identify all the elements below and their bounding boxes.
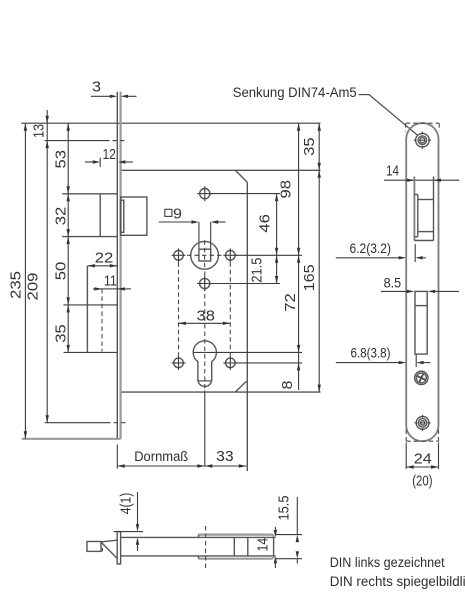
- nut square right line up: [210, 222, 212, 261]
- cylinder vertical centre line dashed: [204, 272, 206, 390]
- faceplate front view outline with rounded ends: [406, 123, 438, 441]
- dimension line 46 and 21.5: [276, 194, 278, 284]
- side view latch hidden dash: [101, 548, 103, 552]
- nut centre line vertical: [204, 240, 206, 270]
- dimension line 35 and 165: [318, 123, 320, 392]
- side view cover plate bottom: [199, 558, 272, 560]
- left M5 hole upper: [174, 251, 184, 261]
- dimension 38: [179, 322, 231, 324]
- boundary line 50-35: [64, 304, 118, 306]
- svg-text:35: 35: [302, 137, 318, 156]
- side view internal edge 2: [247, 537, 249, 556]
- hidden edge dashed line: [101, 289, 103, 352]
- side view latch head: [87, 542, 101, 552]
- svg-text:13: 13: [32, 124, 48, 138]
- lower screw leader line: [210, 283, 280, 285]
- cover bottom extension line: [276, 558, 302, 560]
- cylinder centre leader line right: [194, 351, 303, 353]
- side view case right end: [273, 536, 275, 557]
- svg-text:Dornmaß: Dornmaß: [134, 449, 188, 464]
- lock case top-right chamfer: [235, 170, 247, 182]
- svg-text:DIN links gezeichnet: DIN links gezeichnet: [330, 555, 445, 570]
- top screw centre line: [45, 140, 110, 142]
- svg-text:3: 3: [92, 79, 101, 95]
- svg-text:209: 209: [26, 273, 42, 301]
- phillips screw hole: [415, 371, 428, 384]
- cover top extension line: [276, 534, 302, 536]
- side view centre line dashed: [205, 526, 207, 571]
- latch head bevel step: [121, 200, 124, 232]
- dashed square-end alternative bottom: [406, 440, 438, 442]
- svg-text:6.8(3.8): 6.8(3.8): [351, 345, 391, 360]
- svg-text:50: 50: [53, 262, 69, 281]
- lock case top edge with extension line: [121, 169, 321, 171]
- dimension Dornmass and 33: [117, 465, 246, 467]
- countersunk screw bottom: [416, 417, 429, 430]
- svg-text:8.5: 8.5: [384, 275, 402, 290]
- latch top boundary line: [62, 193, 117, 195]
- svg-text:6.2(3.2): 6.2(3.2): [350, 241, 392, 256]
- latch face edges: [418, 199, 434, 201]
- bottom screw centre line: [45, 422, 111, 424]
- nut square left line up: [198, 222, 200, 249]
- svg-text:8: 8: [280, 381, 296, 390]
- upper screw leader line: [210, 193, 280, 195]
- dimension 4(1): [137, 492, 139, 525]
- svg-text:Senkung DIN74-Am5: Senkung DIN74-Am5: [233, 85, 357, 100]
- latch bottom boundary line: [62, 236, 117, 238]
- lower M5 leader line right: [235, 362, 302, 364]
- side view latch bevel top line: [101, 540, 117, 542]
- svg-text:14: 14: [256, 538, 272, 552]
- dimension line 53 32 50 35: [67, 123, 69, 352]
- svg-text:53: 53: [53, 150, 69, 169]
- svg-text:165: 165: [302, 264, 318, 291]
- faceplate front edge line: [116, 92, 118, 439]
- dimension square 9: [159, 221, 192, 223]
- svg-text:21.5: 21.5: [249, 258, 265, 283]
- deadbolt opening in faceplate: [415, 291, 427, 354]
- right M5 hole lower: [226, 358, 236, 368]
- svg-text:15.5: 15.5: [277, 496, 293, 521]
- svg-text:235: 235: [9, 271, 25, 299]
- svg-text:35: 35: [53, 324, 69, 343]
- side view latch bevel diagonal: [101, 542, 117, 558]
- svg-text:98: 98: [278, 180, 294, 199]
- svg-text:72: 72: [283, 293, 299, 312]
- dashed line left M5 to lower M5: [178, 262, 180, 356]
- right M5 hole upper: [226, 251, 236, 261]
- dashed square-end alternative top: [406, 122, 440, 124]
- latch body left edge: [99, 194, 101, 237]
- svg-text:DIN rechts spiegelbildlich: DIN rechts spiegelbildlich: [330, 574, 465, 589]
- lock case right edge with extension down to Dornmass dimension: [246, 182, 248, 471]
- side view case top edge: [121, 536, 276, 538]
- svg-text:33: 33: [216, 449, 234, 465]
- latch opening bottom edge: [414, 240, 433, 242]
- countersunk screw top: [416, 133, 430, 147]
- svg-text:46: 46: [257, 214, 273, 233]
- nut centre line horizontal: [187, 254, 223, 256]
- svg-text:4(1): 4(1): [119, 493, 135, 515]
- lock case bottom-right chamfer: [235, 381, 246, 392]
- svg-text:11: 11: [104, 274, 117, 290]
- latch opening right edge: [433, 177, 435, 241]
- lower fixing screw hole: [200, 278, 210, 288]
- follower nut square: [199, 249, 211, 261]
- dimension 14 case thickness: [274, 527, 276, 530]
- left M5 hole lower: [174, 358, 184, 368]
- square 9 symbol label: [165, 209, 172, 216]
- cylinder centre line left segment: [64, 351, 118, 353]
- dimension 3 faceplate thickness: [91, 95, 110, 97]
- svg-text:24: 24: [414, 451, 432, 467]
- dimension 24 with (20): [405, 443, 407, 470]
- dimension line 13 and 209: [46, 110, 48, 423]
- nut centre leader line right: [235, 254, 302, 256]
- dimension 12: [85, 161, 93, 163]
- svg-text:14: 14: [386, 163, 399, 179]
- side view faceplate bar: [117, 532, 120, 564]
- dimension 11: [93, 288, 102, 290]
- svg-text:9: 9: [173, 206, 182, 222]
- follower nut circle: [191, 241, 219, 269]
- dimension line 98 72 8: [298, 123, 300, 390]
- svg-text:22: 22: [95, 251, 114, 267]
- faceplate back edge line thick: [119, 92, 121, 439]
- lock case bottom edge with extension line: [121, 391, 321, 393]
- euro profile cylinder hole: [193, 341, 216, 387]
- dimension 22 and follower box top edge: [87, 265, 117, 267]
- follower box left edge: [86, 266, 88, 353]
- svg-text:38: 38: [197, 308, 216, 324]
- side view case bottom edge: [121, 555, 276, 557]
- dashed line right M5 to lower M5: [229, 262, 231, 356]
- latch head protruding rectangle: [121, 197, 147, 235]
- dimension 15.5: [296, 497, 298, 535]
- faceplate bottom edge line: [22, 438, 121, 440]
- svg-text:12: 12: [102, 147, 116, 163]
- faceplate top extension line: [114, 531, 144, 533]
- svg-text:32: 32: [53, 207, 69, 226]
- cylinder vertical centre line solid segment: [204, 391, 206, 467]
- faceplate top edge / extension line: [21, 122, 320, 124]
- Dornmass left extension line: [116, 445, 118, 469]
- side view cover plate top: [199, 533, 272, 535]
- dimension 14 latch opening: [384, 179, 459, 181]
- svg-text:(20): (20): [412, 473, 432, 489]
- latch opening left edge: [413, 177, 415, 241]
- side view internal edge 1: [233, 537, 235, 556]
- upper fixing screw hole: [200, 189, 210, 199]
- latch bevel edge: [417, 195, 419, 237]
- dimension line 235: [24, 123, 26, 439]
